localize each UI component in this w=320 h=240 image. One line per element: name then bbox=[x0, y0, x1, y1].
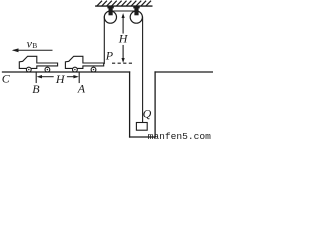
tick at B bbox=[35, 72, 37, 83]
H measurement arrow (vertical, between pulleys) bbox=[122, 13, 125, 63]
truck A rear wheel bbox=[91, 67, 96, 72]
truck B (left truck) body bbox=[19, 56, 57, 68]
svg-text:C: C bbox=[2, 72, 11, 86]
rope from right pulley down into pit bbox=[142, 17, 144, 122]
right pulley mount bbox=[133, 6, 139, 15]
truck B rear wheel bbox=[45, 67, 50, 72]
weight Q box bbox=[136, 123, 147, 131]
svg-text:manfen5.com: manfen5.com bbox=[148, 131, 212, 139]
svg-text:B: B bbox=[32, 82, 40, 96]
svg-text:H: H bbox=[55, 72, 66, 86]
ceiling hatching bbox=[97, 1, 150, 5]
svg-text:H: H bbox=[118, 31, 129, 45]
velocity arrow v_B bbox=[14, 49, 52, 51]
truck B front wheel bbox=[26, 67, 31, 72]
right pulley wheel bbox=[130, 11, 142, 23]
rope from left pulley down to truck A at P bbox=[103, 17, 105, 63]
svg-text:B: B bbox=[32, 41, 37, 50]
svg-text:Q: Q bbox=[143, 107, 152, 121]
H distance arrows between B and A bbox=[41, 76, 54, 78]
left pulley mount bbox=[107, 6, 113, 15]
truck A front wheel bbox=[73, 67, 78, 72]
ground line left of pit bbox=[3, 71, 130, 73]
tick at A bbox=[78, 72, 80, 83]
svg-text:P: P bbox=[105, 49, 114, 63]
pit left wall bbox=[129, 72, 131, 137]
truck A (right truck) body bbox=[65, 56, 103, 68]
pit right wall bbox=[154, 72, 156, 137]
svg-text:A: A bbox=[77, 82, 86, 96]
ground line right of pit bbox=[155, 71, 213, 73]
dashed line at P level bbox=[112, 62, 134, 64]
rope between pulleys bbox=[110, 10, 136, 12]
ceiling line bbox=[96, 5, 152, 7]
pit bottom bbox=[130, 136, 156, 138]
left pulley wheel bbox=[104, 11, 116, 23]
